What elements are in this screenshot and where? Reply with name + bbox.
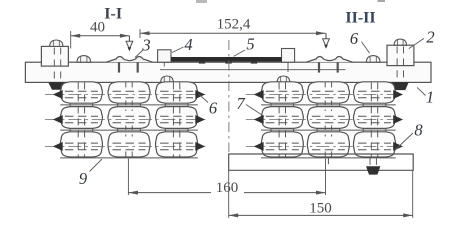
shelf line left group upper	[60, 104, 198, 106]
bellows element left group row1 col1	[60, 82, 102, 103]
corrugated clamp left (part 3)	[107, 57, 153, 63]
dome nut under plate left	[161, 76, 174, 82]
label 6 left leader	[199, 94, 208, 102]
bellows element right group row3 col1	[261, 132, 303, 157]
bellows element right group row1 col1	[261, 82, 303, 103]
row stud hidden lines right group	[246, 94, 404, 96]
label 6 right leader	[362, 42, 370, 54]
row stud hidden lines left group	[45, 94, 206, 96]
bellows element left group row3 col2	[108, 132, 150, 157]
part 2 stud	[396, 46, 398, 84]
label 9 leader	[90, 159, 103, 172]
bellows element left group row3 col1	[60, 132, 102, 157]
label 4 leader	[172, 47, 184, 53]
svg-text:152,4: 152,4	[217, 17, 251, 33]
top plate inner hidden line	[160, 69, 346, 71]
stud end cones right group	[254, 90, 264, 99]
label 3 leader	[135, 50, 143, 58]
dimension 40 line	[71, 35, 130, 37]
bellows element right group row1 col2	[307, 82, 349, 103]
col2 support line	[327, 157, 329, 164]
dome nut under plate right	[277, 76, 290, 82]
dimension 152,4 line	[140, 32, 326, 34]
part 4 clamp block right	[282, 49, 295, 63]
bottom plate nut	[366, 166, 380, 174]
svg-text:8: 8	[414, 121, 423, 140]
dome nut on plate right (part 6)	[366, 56, 380, 63]
bellows element right group row3 col2	[307, 132, 349, 157]
shelf line left group bottom	[60, 157, 198, 159]
shelf line left group lower	[60, 129, 198, 131]
part 2 nut below plate	[393, 83, 408, 90]
column studs left group	[77, 82, 79, 157]
bellows element right group row2 col3	[353, 107, 395, 129]
svg-text:6: 6	[209, 99, 218, 118]
bellows element right group row2 col1	[261, 107, 303, 129]
bellows element right group row1 col3	[353, 82, 395, 103]
left clamp nut below plate	[49, 83, 66, 90]
part 5 rubber strip	[171, 57, 282, 62]
bellows element right group row3 col3	[353, 132, 395, 157]
section cut arrow II	[325, 33, 327, 40]
part 4 clamp block left	[158, 50, 171, 62]
bellows element left group row1 col3	[156, 82, 198, 103]
dimension 160 line	[127, 159, 129, 195]
svg-text:5: 5	[246, 35, 254, 54]
svg-text:4: 4	[184, 35, 192, 54]
bellows element left group row1 col2	[108, 82, 150, 103]
svg-text:6: 6	[350, 29, 359, 48]
centre line	[228, 40, 230, 152]
bellows element left group row3 col3	[156, 132, 198, 157]
part 8 bottom plate	[229, 154, 414, 170]
svg-text:I-I: I-I	[104, 6, 122, 23]
bellows element left group row2 col3	[156, 107, 198, 129]
label 8 leader	[395, 133, 413, 150]
dimension 150 line	[228, 170, 230, 218]
neck joints right group	[270, 103, 272, 106]
svg-text:7: 7	[236, 94, 245, 113]
svg-text:40: 40	[90, 20, 105, 36]
dome nut on plate left	[77, 56, 91, 63]
top edge artifact right	[378, 0, 386, 2]
part 2 right block	[387, 45, 414, 65]
shelf line right group lower	[261, 129, 396, 131]
label 2 leader	[409, 38, 424, 48]
label 7 leader	[246, 105, 264, 117]
part 1 top plate	[25, 62, 431, 82]
left clamp bolt dome	[50, 40, 63, 46]
label 5 leader	[234, 50, 245, 56]
bellows element left group row2 col1	[60, 107, 102, 129]
bottom plate stud	[369, 158, 371, 166]
shelf line right group upper	[261, 104, 396, 106]
label 1 leader	[417, 87, 425, 95]
column studs right group	[278, 82, 280, 157]
svg-text:2: 2	[426, 28, 434, 47]
neck joints left group	[69, 103, 71, 106]
section cut arrow I	[128, 36, 130, 43]
svg-text:II-II: II-II	[345, 10, 375, 27]
svg-text:3: 3	[141, 36, 150, 55]
svg-text:160: 160	[216, 180, 239, 196]
svg-text:150: 150	[309, 201, 332, 217]
bellows element left group row2 col2	[108, 107, 150, 129]
svg-text:9: 9	[79, 169, 87, 188]
shelf line right group bottom	[261, 157, 396, 159]
svg-text:1: 1	[426, 88, 434, 107]
left clamp block	[41, 46, 68, 66]
bellows element right group row2 col2	[307, 107, 349, 129]
part 2 bolt dome	[394, 39, 406, 45]
stud end cones left group	[53, 90, 63, 99]
top edge artifact left	[196, 0, 207, 3]
corrugated clamp right	[307, 57, 353, 63]
left clamp stud	[53, 48, 55, 83]
